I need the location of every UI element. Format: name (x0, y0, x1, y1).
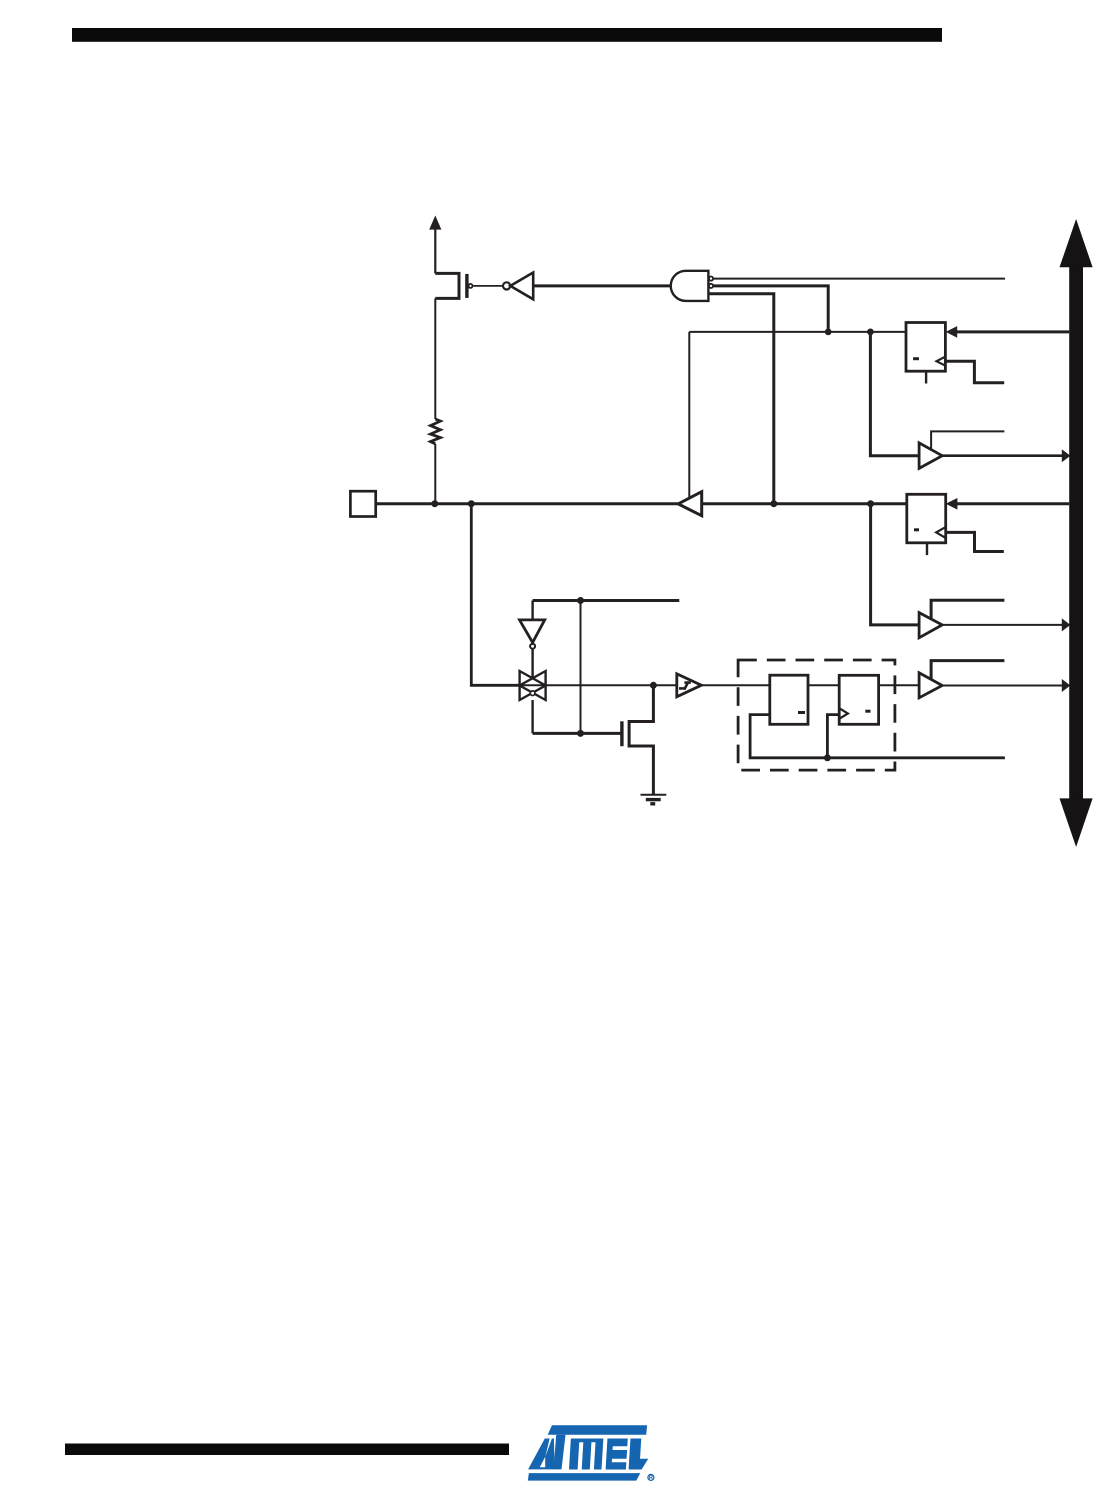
transistor Q1 pull-up pMOS (435, 273, 472, 298)
resistor R1 pull-up (431, 298, 441, 503)
data bus double arrow (1060, 219, 1093, 847)
node pin-resistor junction (431, 500, 438, 507)
wire SLEEP line (533, 599, 680, 602)
wire PORTxn to read buffer (871, 504, 920, 625)
wire SLEEP to inverter (531, 601, 533, 620)
wire pMOS gate to inverter (473, 285, 503, 287)
latch L2 box (839, 675, 878, 724)
wire driver enable from DDxn (688, 332, 690, 499)
NAND gate U3 (mirrored AND body, bubbled inputs on right) (671, 271, 713, 301)
wire between latches (808, 684, 839, 686)
logo letter T stem (554, 1435, 566, 1470)
wire DDxn Q line (689, 331, 906, 333)
wire PINxn to data bus (942, 685, 1063, 687)
wire nMOS gate line (533, 732, 622, 735)
synchronizer dashed box (738, 660, 895, 770)
wire PORTxn Q line (702, 502, 907, 505)
wire input line through gate (520, 684, 677, 686)
transmission gate U8 (520, 671, 546, 700)
Atmel logo (528, 1425, 654, 1480)
wire sleep to nMOS gate (580, 601, 582, 734)
logo letter E (606, 1439, 628, 1470)
node clk junction (824, 754, 831, 761)
node PORTxn-NAND3 junction (770, 500, 777, 507)
node PORTxn read junction (867, 500, 874, 507)
node pin-input junction (468, 500, 475, 507)
transistor Q2 grounding nMOS (622, 685, 654, 794)
wire transmission gate lower control (531, 700, 533, 733)
wire pin to input path (471, 504, 519, 686)
wire pin line (376, 502, 679, 505)
logo bottom bar (528, 1473, 641, 1481)
inverter U2 (points left, bubble at output) (503, 273, 533, 300)
buffer U5 read DDxn (919, 443, 942, 469)
inverter U7 sleep (points down) (520, 620, 545, 649)
logo letters MEL (sheared) (569, 1439, 649, 1470)
wire schmitt to synchronizer (701, 684, 769, 686)
wire latch2 to pin read buffer (879, 684, 920, 686)
flip-flop DDxn (906, 323, 945, 372)
logo letter A (528, 1439, 555, 1470)
wire WPx clock (945, 532, 1003, 551)
wire PORTxn reset stub (926, 543, 928, 555)
ground (641, 795, 667, 804)
wire DDxn to read buffer (870, 332, 919, 456)
output driver U4 (tri-state buffer, points left) (678, 492, 702, 516)
logo registered mark (648, 1474, 654, 1480)
latch L1 box (770, 675, 808, 724)
flip-flop PORTxn (907, 494, 946, 543)
wire RDx enable (931, 431, 1004, 450)
wire RRx to data bus (942, 454, 1063, 457)
wire inverter input to NAND output (533, 284, 671, 287)
wire RPx enable (931, 600, 1004, 619)
wire clk I/O line (750, 715, 1005, 758)
wire WDx clock (945, 361, 1004, 383)
logo letter M (569, 1439, 603, 1470)
wire RPx pin enable (931, 661, 1004, 680)
node SLEEP junction (577, 597, 584, 604)
node DDxn read junction (867, 329, 874, 336)
header rule bar (72, 28, 942, 42)
wire inverter to transmission gate (531, 649, 533, 679)
wire NAND input 2 to DDxn Q (713, 286, 828, 332)
node nMOS drain junction (650, 682, 657, 689)
schmitt trigger U9 (677, 674, 702, 697)
wire PORTxn D from data bus (951, 502, 1069, 505)
buffer U6 read PORTxn (919, 613, 942, 638)
buffer U10 read PINxn (919, 673, 942, 698)
wire PUD input (713, 278, 1005, 280)
wire DDxn D from data bus (951, 330, 1069, 333)
logo top bar (548, 1425, 647, 1435)
wire RPx to data bus (942, 624, 1063, 626)
VCC power symbol (up arrow) (429, 216, 441, 274)
footer rule bar (65, 1444, 509, 1456)
wire DDxn reset stub (925, 371, 927, 383)
wire NAND input 3 to PORTxn Q (708, 294, 773, 504)
node NAND2-DDxn junction (825, 329, 832, 336)
pin pad box Pxn (350, 491, 375, 516)
node sleep-gate junction (577, 730, 584, 737)
logo letter L (629, 1439, 650, 1470)
